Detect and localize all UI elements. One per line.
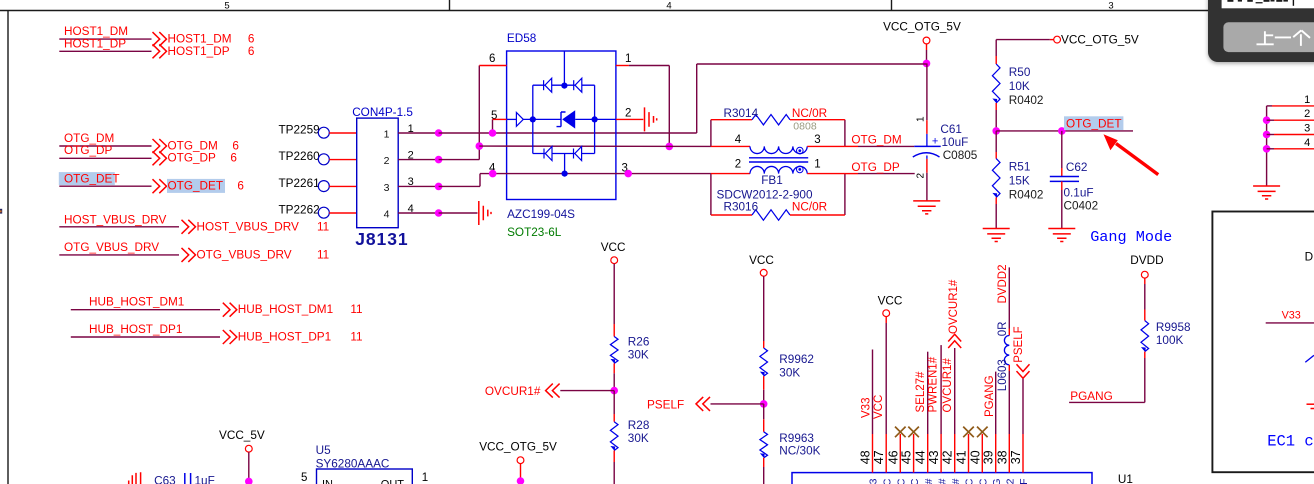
svg-text:1: 1 (916, 116, 927, 122)
svg-text:R28: R28 (628, 419, 650, 432)
svg-text:EC1 c: EC1 c (1267, 433, 1314, 451)
svg-text:6: 6 (232, 140, 239, 153)
svg-text:OVCUR1#: OVCUR1# (948, 279, 960, 334)
svg-text:R9963: R9963 (779, 432, 814, 445)
svg-text:VCC_OTG_5V: VCC_OTG_5V (883, 21, 961, 34)
svg-text:NC/0R: NC/0R (792, 201, 827, 214)
svg-text:6: 6 (489, 53, 495, 65)
svg-text:U5: U5 (316, 444, 331, 457)
svg-text:15K: 15K (1009, 175, 1030, 188)
svg-text:2: 2 (916, 173, 927, 179)
svg-text:V33: V33 (868, 478, 880, 484)
svg-text:3: 3 (814, 134, 820, 146)
svg-text:4: 4 (666, 1, 671, 12)
svg-text:R3014: R3014 (724, 107, 759, 120)
svg-text:VCC: VCC (601, 241, 626, 254)
svg-text:45: 45 (900, 450, 914, 464)
svg-text:R9958: R9958 (1156, 321, 1191, 334)
svg-text:OTG_DET: OTG_DET (1066, 117, 1122, 130)
svg-text:6: 6 (237, 180, 244, 193)
svg-text:HUB_HOST_DM1: HUB_HOST_DM1 (238, 303, 333, 316)
svg-text:NC: NC (909, 478, 921, 484)
svg-text:TP2259: TP2259 (279, 124, 320, 137)
svg-text:10K: 10K (1009, 80, 1030, 93)
svg-text:6: 6 (248, 33, 255, 46)
svg-text:PGANG: PGANG (1070, 390, 1112, 403)
svg-text:Gang Mode: Gang Mode (1090, 228, 1172, 246)
svg-text:OTG_DET: OTG_DET (168, 180, 224, 193)
svg-text:C61: C61 (940, 123, 962, 136)
svg-text:VCC: VCC (878, 295, 903, 308)
svg-text:PSELF: PSELF (647, 398, 684, 411)
svg-text:NC: NC (896, 478, 908, 484)
svg-text:PWREN1#: PWREN1# (936, 478, 948, 484)
svg-text:ED58: ED58 (507, 32, 537, 45)
svg-text:OVCUR1#: OVCUR1# (942, 358, 954, 413)
svg-text:0R: 0R (997, 322, 1009, 337)
svg-text:PGANG: PGANG (984, 375, 996, 417)
svg-text:C63: C63 (154, 475, 176, 484)
svg-text:HOST1_DP: HOST1_DP (168, 45, 230, 58)
svg-text:VCC_5V: VCC_5V (219, 429, 265, 442)
svg-text:41: 41 (955, 450, 969, 464)
svg-text:SDCW2012-2-900: SDCW2012-2-900 (717, 188, 813, 201)
svg-text:1: 1 (1304, 94, 1310, 106)
svg-text:2: 2 (625, 108, 631, 120)
svg-text:OTG_VBUS_DRV: OTG_VBUS_DRV (197, 248, 292, 261)
svg-text:1uF: 1uF (195, 475, 215, 484)
svg-text:C0805: C0805 (943, 149, 978, 162)
svg-text:DVDD2: DVDD2 (1005, 478, 1017, 484)
svg-text:30K: 30K (628, 349, 649, 362)
svg-text:46: 46 (886, 450, 900, 464)
svg-text:5: 5 (224, 1, 229, 12)
svg-text:NC/0R: NC/0R (792, 107, 827, 120)
svg-text:11: 11 (317, 248, 329, 261)
svg-text:OTG_DP: OTG_DP (168, 152, 216, 165)
svg-text:NC/30K: NC/30K (779, 445, 820, 458)
svg-text:R0402: R0402 (1009, 189, 1044, 202)
svg-text:HOST_VBUS_DRV: HOST_VBUS_DRV (64, 213, 166, 226)
svg-text:1: 1 (625, 53, 631, 65)
svg-text:R9962: R9962 (779, 353, 814, 366)
svg-text:6: 6 (248, 45, 255, 58)
svg-text:R51: R51 (1009, 161, 1031, 174)
svg-text:3: 3 (384, 182, 390, 194)
svg-text:30K: 30K (779, 367, 800, 380)
svg-text:SEL27#: SEL27# (915, 371, 927, 413)
svg-text:NC: NC (978, 478, 990, 484)
svg-text:VCC_OTG_5V: VCC_OTG_5V (1061, 33, 1139, 46)
svg-text:6: 6 (230, 152, 237, 165)
svg-text:PWREN1#: PWREN1# (928, 356, 940, 412)
svg-text:V33: V33 (1282, 310, 1301, 322)
svg-text:CON4P-1.5: CON4P-1.5 (352, 106, 413, 119)
svg-text:AZC199-04S: AZC199-04S (507, 208, 575, 221)
svg-text:0.1uF: 0.1uF (1064, 187, 1094, 200)
svg-text:OTG_VBUS_DRV: OTG_VBUS_DRV (64, 241, 159, 254)
svg-text:2: 2 (735, 159, 741, 171)
svg-text:100K: 100K (1156, 334, 1184, 347)
svg-text:11: 11 (350, 331, 362, 344)
svg-text:4: 4 (384, 209, 390, 221)
svg-text:PGANG: PGANG (991, 479, 1003, 484)
svg-text:11: 11 (317, 220, 329, 233)
svg-text:OTG_DP: OTG_DP (64, 144, 112, 157)
svg-text:R0402: R0402 (1009, 94, 1044, 107)
svg-text:OUT: OUT (381, 479, 405, 484)
svg-text:PSELF: PSELF (1018, 479, 1030, 484)
svg-text:PSELF: PSELF (1013, 326, 1025, 362)
svg-text:OTG_DM: OTG_DM (168, 140, 218, 153)
svg-text:C62: C62 (1066, 161, 1088, 174)
svg-text:FB1: FB1 (761, 174, 783, 187)
svg-text:10uF: 10uF (942, 136, 969, 149)
svg-text:TP2261: TP2261 (279, 177, 320, 190)
svg-text:11: 11 (350, 303, 362, 316)
svg-text:HUB_HOST_DP1: HUB_HOST_DP1 (89, 323, 182, 336)
svg-text:1: 1 (384, 129, 390, 141)
svg-text:+: + (932, 136, 938, 148)
svg-text:R50: R50 (1009, 66, 1031, 79)
svg-text:R3016: R3016 (724, 201, 759, 214)
svg-text:HUB_HOST_DP1: HUB_HOST_DP1 (238, 331, 331, 344)
svg-text:TP2260: TP2260 (279, 150, 321, 163)
svg-text:HOST_VBUS_DRV: HOST_VBUS_DRV (197, 220, 299, 233)
svg-text:42: 42 (941, 450, 955, 464)
svg-text:OTG_DM: OTG_DM (851, 134, 901, 147)
svg-text:DVDD2: DVDD2 (997, 265, 1009, 304)
svg-text:OVCUR1#: OVCUR1# (485, 385, 541, 398)
svg-text:VCC_OTG_5V: VCC_OTG_5V (479, 441, 557, 454)
svg-text:IN: IN (322, 479, 333, 484)
svg-text:OTG_DP: OTG_DP (851, 161, 899, 174)
svg-text:V33: V33 (861, 398, 873, 418)
svg-text:HUB_HOST_DM1: HUB_HOST_DM1 (89, 296, 184, 309)
svg-text:5: 5 (301, 472, 307, 484)
svg-text:47: 47 (872, 450, 886, 464)
svg-text:1: 1 (422, 472, 428, 484)
svg-text:2: 2 (384, 155, 390, 167)
svg-text:4: 4 (735, 134, 742, 146)
svg-text:D: D (1305, 251, 1314, 264)
svg-text:R26: R26 (628, 336, 650, 349)
svg-text:39: 39 (982, 450, 996, 464)
svg-text:VCC: VCC (881, 478, 893, 484)
svg-text:48: 48 (859, 450, 873, 464)
svg-text:3: 3 (1108, 1, 1113, 12)
svg-text:OVCUR1#: OVCUR1# (950, 478, 962, 484)
svg-text:40: 40 (968, 450, 982, 464)
svg-text:HOST1_DM: HOST1_DM (168, 33, 232, 46)
svg-text:C0402: C0402 (1064, 200, 1099, 213)
svg-text:OTG_DET: OTG_DET (64, 172, 120, 185)
svg-text:TP2262: TP2262 (279, 204, 320, 217)
svg-text:SOT23-6L: SOT23-6L (507, 226, 562, 239)
svg-text:U1: U1 (1118, 473, 1133, 484)
svg-text:1: 1 (814, 159, 820, 171)
svg-text:NC: NC (964, 478, 976, 484)
svg-text:38: 38 (995, 450, 1009, 464)
svg-text:37: 37 (1009, 450, 1023, 464)
svg-text:44: 44 (914, 450, 928, 464)
svg-text:43: 43 (927, 450, 941, 464)
svg-text:2: 2 (1304, 108, 1310, 120)
svg-text:J8131: J8131 (355, 229, 408, 249)
svg-text:0808: 0808 (793, 121, 817, 133)
svg-text:3: 3 (1304, 123, 1310, 135)
svg-text:DVDD: DVDD (1130, 254, 1163, 267)
svg-text:VCC: VCC (873, 395, 885, 419)
svg-text:VCC: VCC (749, 254, 774, 267)
svg-text:HOST1_DP: HOST1_DP (64, 38, 126, 51)
svg-text:L0603: L0603 (997, 359, 1009, 391)
svg-text:HOST1_DM: HOST1_DM (64, 25, 128, 38)
svg-text:4: 4 (1304, 137, 1310, 149)
svg-text:SEL27#: SEL27# (923, 478, 935, 484)
svg-text:30K: 30K (628, 432, 649, 445)
